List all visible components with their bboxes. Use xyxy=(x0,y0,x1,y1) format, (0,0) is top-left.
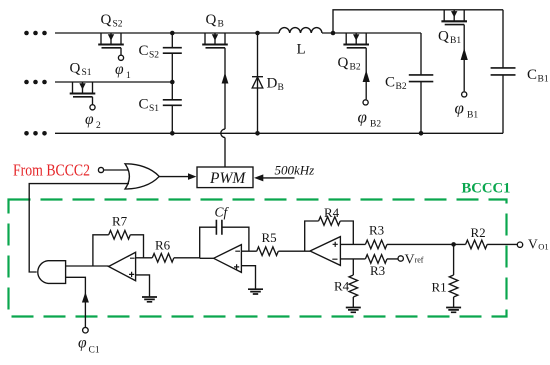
svg-text:R4: R4 xyxy=(324,205,340,220)
svg-text:500kHz: 500kHz xyxy=(275,163,315,178)
wire phiC1 to AND input 2 (up arrow) xyxy=(66,277,89,327)
resistor R7 (feedback) xyxy=(93,231,144,267)
wire 500kHz clock into PWM with arrow xyxy=(254,174,295,181)
wire QB gate to PWM (with up arrow, hops over rail 3) xyxy=(221,48,229,167)
transistor QB xyxy=(202,33,228,48)
op-amp U1 xyxy=(310,237,340,266)
svg-text:B2: B2 xyxy=(396,82,407,92)
PWM block xyxy=(197,167,253,188)
capacitor CB2 xyxy=(409,33,434,133)
wire rail 3 (bottom return) xyxy=(55,132,503,134)
transistor QB2 xyxy=(343,33,369,48)
wire BCCC2 terminal to OR input xyxy=(104,169,129,171)
node rail1/inductor-QB2 junction xyxy=(331,31,336,36)
svg-text:B: B xyxy=(278,83,284,93)
svg-text:R3: R3 xyxy=(370,263,385,278)
wire U2 minus input / resistor R5 / U1 output xyxy=(241,247,310,256)
svg-text:φ: φ xyxy=(115,61,124,78)
and-gate U5 xyxy=(38,261,66,284)
svg-text:C: C xyxy=(527,67,537,83)
svg-text:φ: φ xyxy=(85,111,94,128)
svg-text:C: C xyxy=(385,75,395,91)
svg-text:B1: B1 xyxy=(450,36,461,46)
capacitor CS1 xyxy=(163,82,182,133)
node rail3/DB junction xyxy=(255,131,260,136)
svg-text:L: L xyxy=(297,42,306,58)
wire U2 output to R6 node xyxy=(200,257,214,259)
svg-text:R1: R1 xyxy=(432,280,447,295)
svg-text:BCCC1: BCCC1 xyxy=(462,181,511,197)
capacitor Cf (integrator feedback) xyxy=(200,220,249,259)
node rail2/CS2-CS1 junction xyxy=(170,80,175,85)
svg-text:R3: R3 xyxy=(369,223,384,238)
node rail1/DB junction xyxy=(255,31,260,36)
svg-text:O1: O1 xyxy=(538,241,548,251)
capacitor CB1 xyxy=(491,10,516,134)
node R2/R1/R3 junction xyxy=(451,242,456,247)
svg-text:R7: R7 xyxy=(112,214,128,229)
wire QB1 gate to phiB1 (up arrow) xyxy=(461,25,468,92)
ground R4 xyxy=(346,308,361,313)
svg-text:C: C xyxy=(139,97,149,113)
wire U1 plus input / resistor R3 top xyxy=(340,240,453,249)
svg-text:B1: B1 xyxy=(538,75,549,85)
input rail 1 dots xyxy=(24,31,47,36)
wire junction up to top bus xyxy=(333,10,503,33)
transistor QS1 xyxy=(70,82,96,97)
wire U2 plus to ground xyxy=(241,266,255,289)
wire QS1 gate to phi2 terminal xyxy=(92,97,94,105)
node VO1 terminal xyxy=(517,242,522,247)
transistor QS2 xyxy=(98,33,124,48)
svg-text:2: 2 xyxy=(96,121,101,131)
svg-text:Q: Q xyxy=(101,12,112,28)
wire OR output to PWM with arrow xyxy=(159,173,196,180)
svg-text:C1: C1 xyxy=(89,346,100,356)
wire rail 2 xyxy=(55,81,172,83)
svg-text:V: V xyxy=(405,252,415,267)
svg-text:S1: S1 xyxy=(82,68,92,78)
wire AND output up to OR input xyxy=(29,184,129,272)
wire U3 minus input xyxy=(136,257,144,259)
svg-text:Q: Q xyxy=(438,29,449,45)
BCCC1 boundary (green dashed box) xyxy=(9,200,507,317)
svg-text:φ: φ xyxy=(78,335,87,352)
diode DB xyxy=(252,33,263,133)
inductor L xyxy=(279,28,322,33)
op-amp U2 xyxy=(214,245,242,273)
svg-text:S1: S1 xyxy=(149,104,159,114)
svg-text:B: B xyxy=(218,20,224,30)
svg-text:φ: φ xyxy=(455,99,464,118)
transistor QB1 xyxy=(441,10,467,25)
svg-text:V: V xyxy=(528,237,538,252)
svg-text:ref: ref xyxy=(415,255,424,264)
svg-text:B1: B1 xyxy=(467,111,478,121)
capacitor CS2 xyxy=(163,33,182,82)
node rail3/CB2 junction xyxy=(419,131,424,136)
input rail 3 dots xyxy=(24,131,47,136)
svg-text:Q: Q xyxy=(338,55,349,71)
resistor R2 xyxy=(454,240,518,249)
svg-text:1: 1 xyxy=(126,71,131,81)
ground U3 xyxy=(142,297,157,302)
wire U3 plus to ground xyxy=(136,275,150,297)
svg-text:R5: R5 xyxy=(262,230,277,245)
svg-text:φ: φ xyxy=(358,108,367,127)
input rail 2 dots xyxy=(24,80,47,85)
svg-text:Cf: Cf xyxy=(215,205,230,220)
node rail1/CS2 junction xyxy=(170,31,175,36)
resistor R4 (feedback) xyxy=(305,217,354,251)
svg-text:R6: R6 xyxy=(155,238,171,253)
svg-text:R2: R2 xyxy=(471,225,486,240)
wire QS2 gate to phi1 terminal xyxy=(120,48,122,55)
svg-text:From BCCC2: From BCCC2 xyxy=(13,161,90,180)
svg-text:C: C xyxy=(139,43,149,59)
wire QB2 gate to phiB2 (up arrow) xyxy=(363,48,370,100)
wire rail 1 xyxy=(55,32,421,34)
wire U3 output to AND input 1 xyxy=(66,265,109,267)
wire U1 minus input / resistor R3 bottom to Vref xyxy=(340,255,398,264)
svg-text:S2: S2 xyxy=(149,51,159,61)
svg-text:B2: B2 xyxy=(370,120,381,130)
ground U2 xyxy=(248,289,263,294)
svg-text:B2: B2 xyxy=(350,63,361,73)
resistor R4 to ground xyxy=(349,259,358,308)
resistor R6 xyxy=(144,253,200,262)
node From-BCCC2 terminal xyxy=(98,167,103,172)
svg-text:Q: Q xyxy=(70,61,81,77)
svg-text:R4: R4 xyxy=(334,279,350,294)
resistor R1 to ground xyxy=(449,244,458,307)
node rail3/CS1 junction xyxy=(170,131,175,136)
or-gate U4 xyxy=(125,164,159,189)
svg-text:S2: S2 xyxy=(113,20,123,30)
ground R1 xyxy=(446,308,461,313)
svg-text:Q: Q xyxy=(206,12,217,28)
op-amp U3 xyxy=(109,252,136,280)
svg-text:PWM: PWM xyxy=(209,170,246,187)
svg-text:D: D xyxy=(267,76,278,92)
